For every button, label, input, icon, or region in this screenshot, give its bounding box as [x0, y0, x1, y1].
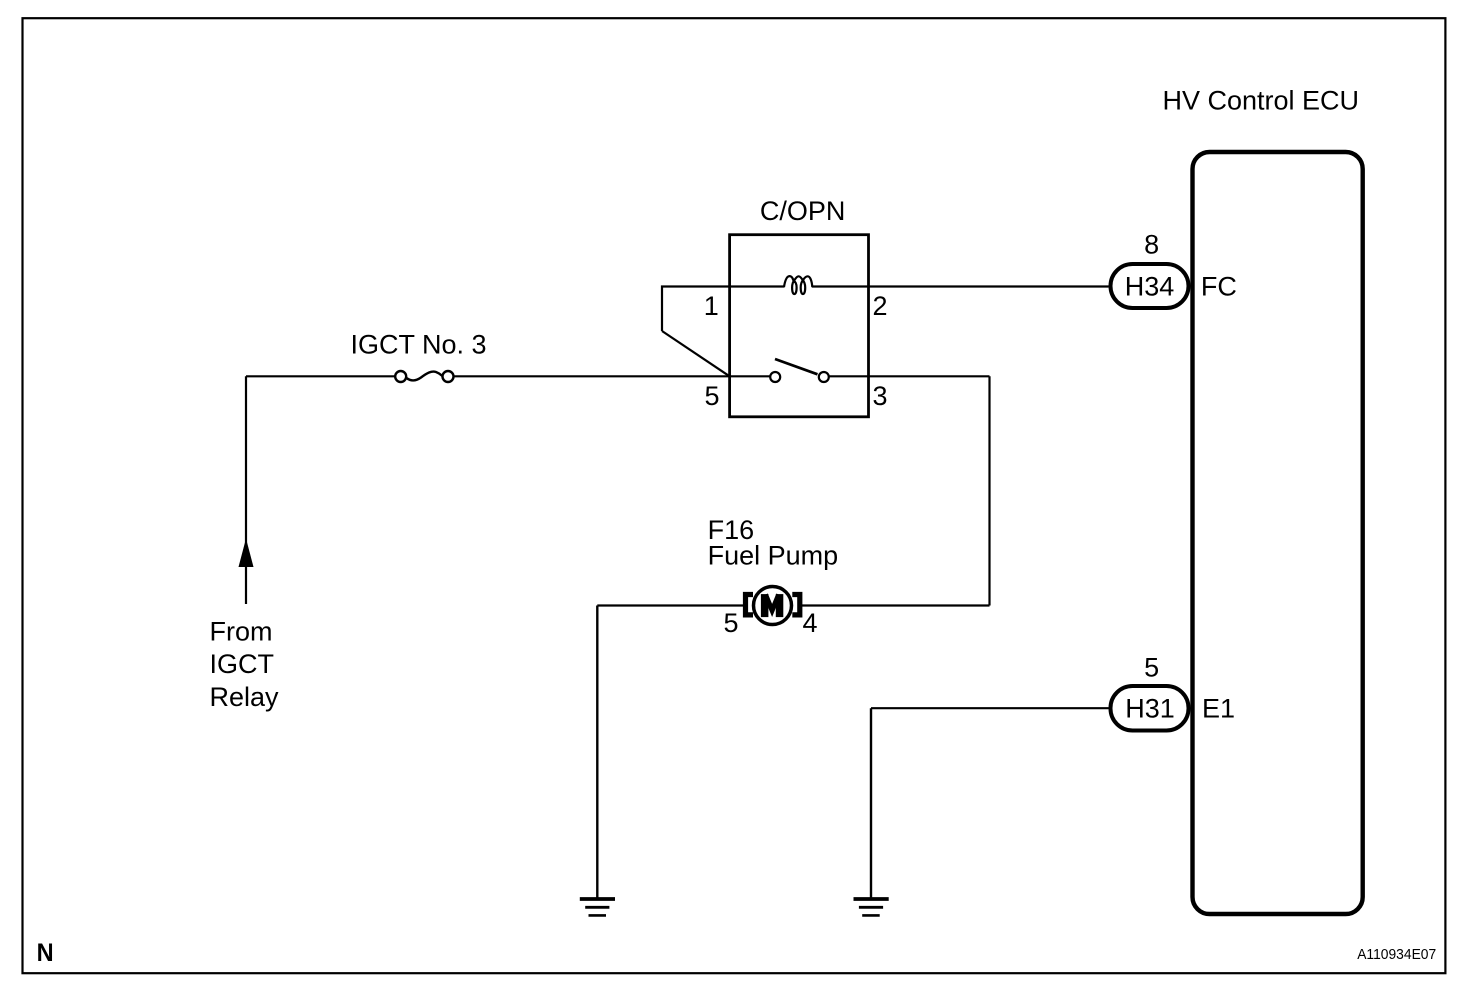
svg-text:4: 4 [802, 608, 817, 638]
svg-text:5: 5 [723, 608, 738, 638]
ECU body U1 [1193, 152, 1363, 914]
svg-text:A110934E07: A110934E07 [1357, 947, 1436, 963]
ground right [854, 899, 889, 915]
wire fuse to relay pin 5 [454, 375, 730, 377]
wire right vertical down to fuel pump [988, 376, 990, 605]
svg-text:IGCT: IGCT [210, 649, 275, 679]
svg-text:H31: H31 [1125, 694, 1175, 724]
fuse IGCT No. 3 [395, 371, 406, 382]
svg-text:C/OPN: C/OPN [760, 196, 846, 226]
wire ground riser right [870, 708, 872, 898]
wire node 1 branch: coil line left of box to corner [662, 287, 785, 332]
svg-text:3: 3 [872, 381, 887, 411]
wire fuel pump left [597, 604, 743, 606]
svg-text:5: 5 [1144, 653, 1159, 683]
wire switch line left inside box [730, 375, 771, 377]
relay C/OPN box [730, 235, 869, 417]
svg-text:E1: E1 [1202, 694, 1235, 724]
motor M fuel pump circle [754, 587, 792, 625]
svg-text:1: 1 [704, 291, 719, 321]
motor letter M [761, 594, 783, 617]
wire coil pin 2 to connector H34 [812, 285, 1109, 287]
motor left terminal bracket pin 5 [746, 595, 754, 615]
wire from left riser to fuse [246, 375, 395, 377]
svg-text:Relay: Relay [210, 682, 280, 712]
wire left riser from IGCT relay [245, 376, 247, 604]
connector H34 oval [1111, 264, 1189, 308]
svg-text:H34: H34 [1125, 272, 1175, 302]
svg-text:2: 2 [872, 291, 887, 321]
svg-text:FC: FC [1201, 272, 1237, 302]
svg-text:IGCT No. 3: IGCT No. 3 [351, 330, 487, 360]
svg-text:From: From [210, 617, 273, 647]
motor right terminal bracket pin 4 [792, 595, 800, 615]
wire fuel pump right [802, 604, 990, 606]
connector H31 oval [1111, 686, 1189, 731]
svg-text:N: N [37, 939, 54, 967]
relay coil L1 [784, 276, 812, 294]
svg-text:Fuel Pump: Fuel Pump [708, 540, 839, 570]
wire switch pin3 to right corner [829, 375, 990, 377]
ground left [580, 899, 615, 915]
arrow up (from IGCT relay) [239, 539, 254, 568]
wire motor to ground left [596, 606, 598, 899]
relay switch contact circles [770, 372, 780, 382]
wire E1 to ground riser [871, 707, 1109, 709]
relay switch blade [775, 359, 818, 374]
wire diagonal from node 1 corner to pin 5 [662, 331, 730, 376]
svg-text:5: 5 [704, 381, 719, 411]
svg-text:HV Control ECU: HV Control ECU [1163, 86, 1360, 116]
svg-text:8: 8 [1144, 230, 1159, 260]
